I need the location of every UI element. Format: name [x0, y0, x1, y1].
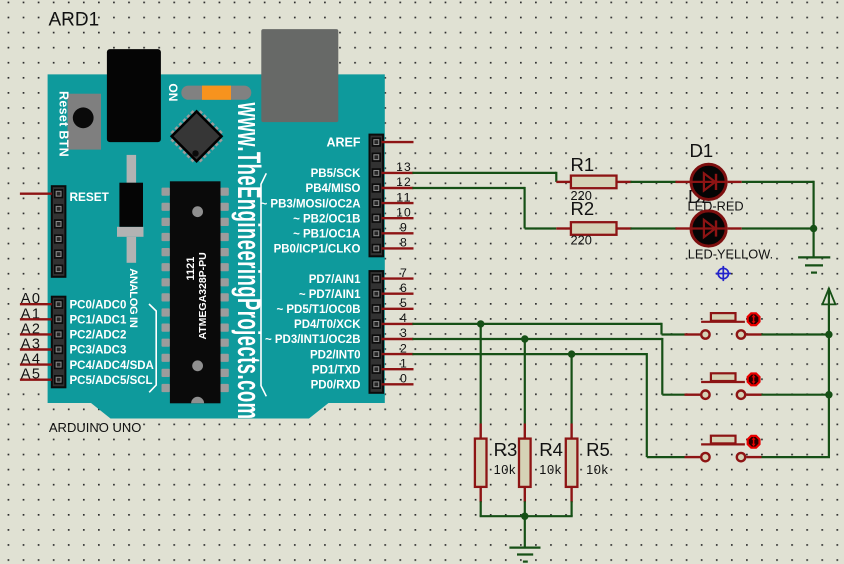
svg-text:www.TheEngineeringProjects.com: www.TheEngineeringProjects.com: [231, 102, 268, 420]
electrolytic capacitor on board: [117, 155, 144, 263]
wire pin 11 stub: [382, 202, 414, 204]
wire R1 to D1: [631, 181, 677, 183]
svg-text:PC1/ADC1: PC1/ADC1: [70, 315, 127, 327]
svg-text:ANALOG IN: ANALOG IN: [127, 268, 139, 327]
svg-text:PD4/T0/XCK: PD4/T0/XCK: [294, 319, 361, 331]
USB connector: [261, 29, 338, 122]
junction R5 tap: [568, 350, 575, 357]
power switch ON slider: [181, 86, 251, 100]
wire D2 to ground rail: [742, 227, 814, 229]
VCC power rail vertical: [828, 288, 830, 457]
svg-text:~ PD7/AIN1: ~ PD7/AIN1: [299, 289, 361, 301]
ground symbol LED return: [798, 257, 830, 272]
wire pin 4 to button 1 and R3: [382, 323, 701, 335]
QFP chip U-SMD: [166, 106, 226, 166]
svg-text:~ PD3/INT1/OC2B: ~ PD3/INT1/OC2B: [265, 334, 361, 346]
svg-text:PC3/ADC3: PC3/ADC3: [70, 345, 127, 357]
wire pin 1 stub: [382, 368, 414, 370]
svg-text:Reset BTN: Reset BTN: [56, 91, 70, 157]
resistor R4 10k: [519, 439, 531, 503]
wire pin 12 to R2: [382, 187, 571, 229]
wire pin 7 stub: [382, 277, 414, 279]
power symbol VCC arrow: [822, 288, 835, 304]
svg-text:PC2/ADC2: PC2/ADC2: [70, 330, 127, 342]
svg-text:10k: 10k: [539, 462, 561, 477]
wire A3 stub: [20, 348, 52, 350]
resistor R3 10k: [475, 439, 487, 503]
svg-text:PD1/TXD: PD1/TXD: [312, 364, 361, 376]
svg-text:R3: R3: [494, 439, 518, 460]
IC U1 ATMEGA328P-PU: [162, 181, 229, 403]
resistor R2 220: [571, 222, 632, 235]
wire A5 stub: [20, 379, 52, 381]
wire AREF stub: [382, 141, 414, 143]
button SW2 interactive icon: [748, 374, 760, 386]
wire pin 6 stub: [382, 293, 414, 295]
white bracket analog pin group: [149, 304, 156, 392]
svg-text:~ PD5/T1/OC0B: ~ PD5/T1/OC0B: [276, 304, 360, 316]
origin marker crosshair: [716, 266, 731, 281]
svg-text:~ PB1/OC1A: ~ PB1/OC1A: [293, 229, 360, 241]
wire button 2 to VCC rail: [746, 394, 829, 396]
svg-text:PD7/AIN1: PD7/AIN1: [309, 274, 361, 286]
svg-text:~ PB3/MOSI/OC2A: ~ PB3/MOSI/OC2A: [260, 198, 360, 210]
wire R5 top: [570, 353, 572, 440]
wire pin 0 stub: [382, 383, 414, 385]
header J4 analog A0-A5: [52, 297, 66, 388]
junction R4 tap: [521, 335, 528, 342]
wire pin 2 to button 3 and R5: [382, 353, 701, 457]
header J2 bottom right (PD pins): [370, 271, 384, 393]
wire RESET stub: [20, 192, 52, 194]
Arduino UNO board body: [48, 74, 385, 418]
wire A1 stub: [20, 318, 52, 320]
svg-text:R1: R1: [571, 154, 595, 175]
svg-text:PC5/ADC5/SCL: PC5/ADC5/SCL: [70, 375, 153, 387]
svg-text:RESET: RESET: [70, 190, 110, 204]
header J1 top right (AREF / PB pins): [370, 135, 384, 257]
resistor R5 10k: [566, 439, 578, 503]
svg-text:PC0/ADC0: PC0/ADC0: [70, 299, 127, 311]
wire pin 13 to R1: [382, 172, 571, 182]
svg-text:PD2/INT0: PD2/INT0: [310, 349, 361, 361]
wire R3 top: [480, 323, 482, 440]
svg-text:PB5/SCK: PB5/SCK: [311, 168, 362, 180]
svg-text:AREF: AREF: [326, 135, 360, 149]
push button SW2: [701, 373, 745, 399]
push button SW3: [701, 436, 745, 462]
wire pin 10 stub: [382, 217, 414, 219]
wire resistor bottoms common: [480, 515, 573, 517]
svg-text:R4: R4: [539, 439, 563, 460]
wire A2 stub: [20, 333, 52, 335]
wire pin 5 stub: [382, 308, 414, 310]
svg-text:PB4/MISO: PB4/MISO: [306, 183, 361, 195]
button SW3 interactive icon: [748, 436, 760, 448]
wire pin 8 stub: [382, 247, 414, 249]
svg-text:10k: 10k: [586, 462, 608, 477]
junction rail button1: [825, 331, 832, 338]
wire A0 stub: [20, 303, 52, 305]
wire button 3 to VCC rail: [746, 456, 830, 458]
wire D1 to ground rail: [742, 181, 814, 258]
svg-text:R5: R5: [586, 439, 610, 460]
wire pin 3 to button 2 and R4: [382, 338, 701, 395]
wire pin 9 stub: [382, 232, 414, 234]
wire R2 to D2: [631, 227, 677, 229]
wire R4 bottom: [524, 501, 526, 516]
button SW1 interactive icon: [748, 313, 760, 325]
header J3 RESET: [52, 186, 66, 277]
junction D2 return: [810, 225, 817, 232]
svg-text:PD0/RXD: PD0/RXD: [311, 380, 361, 392]
wire R3 bottom: [480, 501, 482, 516]
reset button pad: [68, 94, 102, 150]
junction R3 tap: [477, 320, 484, 327]
svg-text:LED-YELLOW.: LED-YELLOW.: [688, 247, 773, 262]
push button SW1: [701, 313, 745, 339]
svg-text:~ PB2/OC1B: ~ PB2/OC1B: [293, 213, 360, 225]
DC power jack: [107, 49, 161, 142]
white bracket right pin group: [261, 173, 266, 396]
wire R5 bottom: [570, 501, 572, 516]
svg-text:1121: 1121: [185, 257, 197, 281]
wire R4 top: [524, 338, 526, 440]
ground symbol bottom: [509, 548, 540, 562]
svg-text:ON: ON: [166, 83, 180, 101]
LED D1 (LED-RED): [676, 164, 742, 199]
svg-text:ATMEGA328P-PU: ATMEGA328P-PU: [197, 252, 209, 339]
junction rail button2: [825, 391, 832, 398]
wire button 1 to VCC rail: [746, 333, 829, 335]
svg-text:220: 220: [571, 232, 592, 247]
svg-text:PC4/ADC4/SDA: PC4/ADC4/SDA: [70, 360, 154, 372]
svg-text:PB0/ICP1/CLKO: PB0/ICP1/CLKO: [274, 244, 361, 256]
junction resistor common: [521, 513, 528, 520]
LED D2 (LED-YELLOW): [676, 211, 742, 246]
wire A4 stub: [20, 363, 52, 365]
svg-text:ARD1: ARD1: [49, 10, 100, 31]
resistor R1 220: [571, 176, 632, 189]
wire to ground bottom: [524, 516, 526, 547]
svg-text:D1: D1: [690, 140, 714, 161]
svg-text:R2: R2: [571, 198, 595, 219]
svg-text:10k: 10k: [494, 462, 516, 477]
svg-text:ARDUINO UNO: ARDUINO UNO: [49, 420, 141, 435]
